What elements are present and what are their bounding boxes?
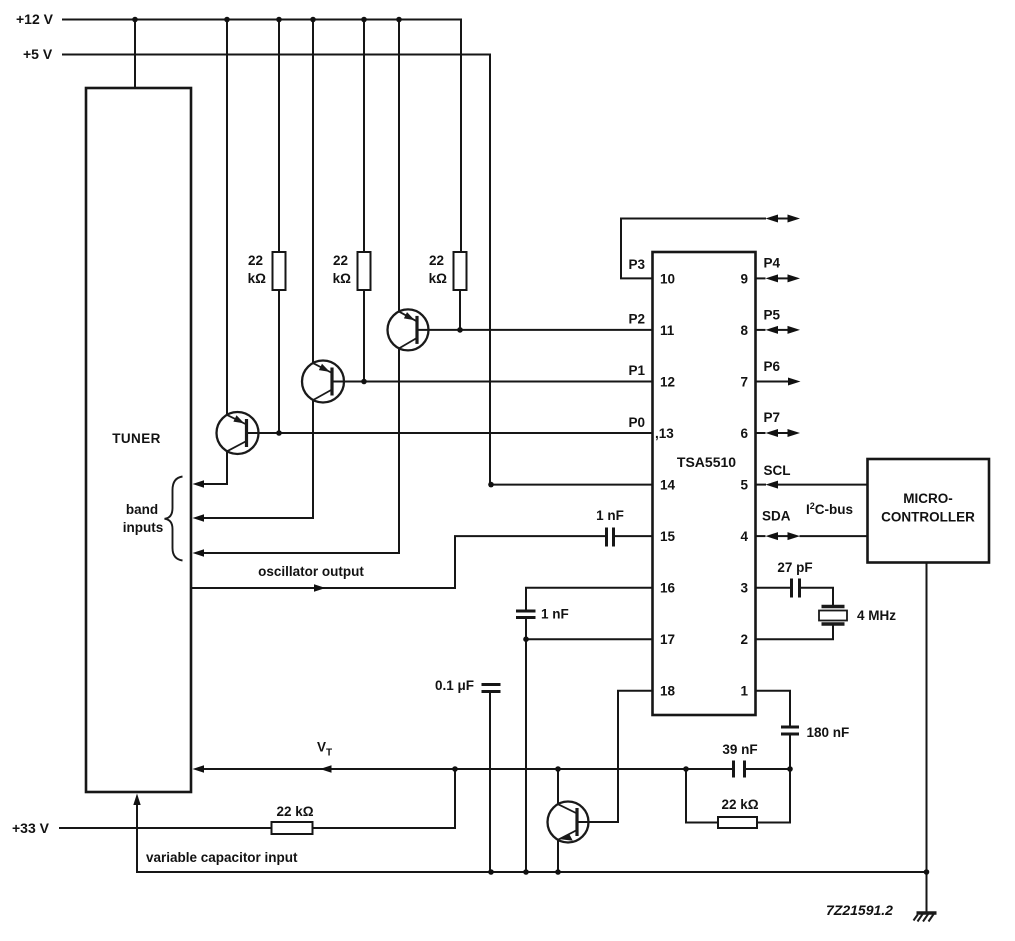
svg-text:P0: P0 bbox=[628, 415, 645, 430]
svg-text:15: 15 bbox=[660, 529, 676, 544]
svg-text:22: 22 bbox=[248, 253, 263, 268]
svg-text:SDA: SDA bbox=[762, 509, 791, 524]
svg-text:0.1 μF: 0.1 μF bbox=[435, 678, 474, 693]
svg-text:variable capacitor input: variable capacitor input bbox=[146, 850, 298, 865]
svg-text:P6: P6 bbox=[764, 359, 781, 374]
svg-text:8: 8 bbox=[740, 323, 748, 338]
svg-text:180 nF: 180 nF bbox=[807, 725, 850, 740]
svg-text:inputs: inputs bbox=[123, 520, 164, 535]
svg-text:1 nF: 1 nF bbox=[596, 508, 624, 523]
svg-text:9: 9 bbox=[740, 272, 748, 287]
svg-text:18: 18 bbox=[660, 684, 676, 699]
svg-text:,13: ,13 bbox=[655, 426, 674, 441]
svg-text:P2: P2 bbox=[628, 312, 645, 327]
svg-text:MICRO-: MICRO- bbox=[903, 491, 953, 506]
svg-text:4: 4 bbox=[740, 529, 748, 544]
svg-text:12: 12 bbox=[660, 375, 675, 390]
svg-text:P1: P1 bbox=[628, 363, 645, 378]
svg-text:7: 7 bbox=[740, 375, 748, 390]
svg-text:kΩ: kΩ bbox=[429, 271, 448, 286]
svg-text:TUNER: TUNER bbox=[112, 431, 161, 446]
svg-text:P4: P4 bbox=[764, 256, 781, 271]
svg-text:27 pF: 27 pF bbox=[777, 560, 812, 575]
svg-text:6: 6 bbox=[740, 426, 748, 441]
svg-text:3: 3 bbox=[740, 581, 748, 596]
svg-text:kΩ: kΩ bbox=[248, 271, 267, 286]
svg-text:22: 22 bbox=[429, 253, 444, 268]
svg-text:10: 10 bbox=[660, 272, 675, 287]
svg-text:17: 17 bbox=[660, 632, 675, 647]
svg-text:1: 1 bbox=[740, 684, 748, 699]
svg-text:1 nF: 1 nF bbox=[541, 607, 569, 622]
svg-text:P3: P3 bbox=[628, 257, 645, 272]
svg-text:SCL: SCL bbox=[764, 463, 791, 478]
svg-text:CONTROLLER: CONTROLLER bbox=[881, 510, 975, 525]
svg-text:22: 22 bbox=[333, 253, 348, 268]
svg-text:+33 V: +33 V bbox=[12, 820, 50, 836]
svg-text:+5 V: +5 V bbox=[23, 46, 53, 62]
svg-text:P7: P7 bbox=[764, 410, 781, 425]
svg-text:5: 5 bbox=[740, 478, 748, 493]
svg-text:14: 14 bbox=[660, 478, 676, 493]
svg-text:kΩ: kΩ bbox=[333, 271, 352, 286]
svg-text:22 kΩ: 22 kΩ bbox=[721, 797, 758, 812]
svg-text:39 nF: 39 nF bbox=[722, 742, 757, 757]
svg-text:+12 V: +12 V bbox=[16, 11, 54, 27]
svg-text:band: band bbox=[126, 502, 158, 517]
svg-text:16: 16 bbox=[660, 581, 676, 596]
svg-text:2: 2 bbox=[740, 632, 748, 647]
svg-text:7Z21591.2: 7Z21591.2 bbox=[826, 902, 893, 918]
svg-text:22 kΩ: 22 kΩ bbox=[276, 804, 313, 819]
svg-text:4 MHz: 4 MHz bbox=[857, 608, 896, 623]
svg-text:oscillator output: oscillator output bbox=[258, 564, 364, 579]
svg-text:P5: P5 bbox=[764, 308, 781, 323]
svg-text:TSA5510: TSA5510 bbox=[677, 454, 736, 470]
svg-text:11: 11 bbox=[660, 323, 675, 338]
